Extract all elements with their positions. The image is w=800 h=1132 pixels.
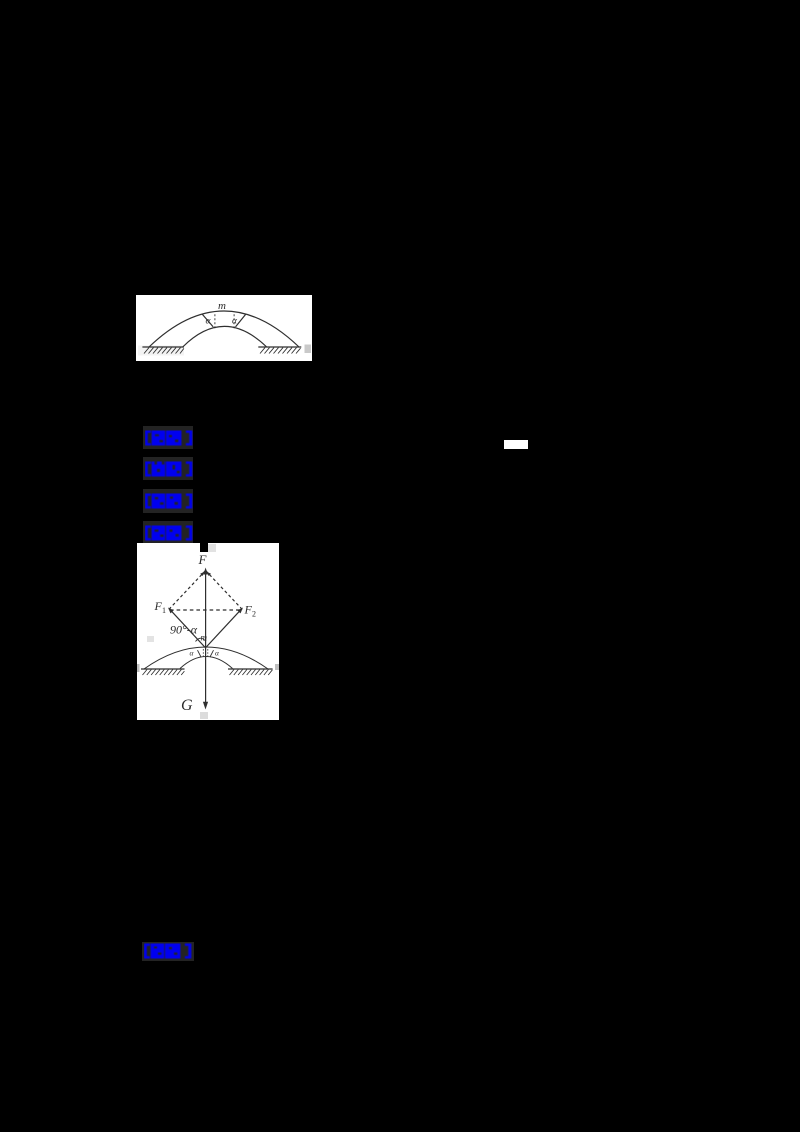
- outer arch: [144, 647, 268, 669]
- ground hatch left: [143, 670, 185, 676]
- inner arch: [180, 657, 233, 669]
- ground line left: [141, 668, 185, 670]
- svg-text:G: G: [181, 697, 193, 714]
- ground line left: [142, 346, 184, 348]
- blue tag 1 (answer): [143, 426, 193, 449]
- ground hatch right: [230, 670, 273, 676]
- force arrow to F1: [169, 609, 205, 648]
- arrowhead dashed left at F tip: [200, 572, 204, 576]
- gray square left edge: [137, 664, 140, 672]
- svg-text:α: α: [190, 649, 195, 658]
- resultant F vertical line: [205, 572, 207, 706]
- force arrow to F2: [206, 609, 242, 648]
- dashed parallelogram side left: [169, 571, 206, 610]
- ground line right: [258, 346, 301, 348]
- arrowhead F1: [168, 608, 174, 614]
- arrowhead F2: [237, 608, 243, 614]
- keystone left slant: [202, 314, 213, 327]
- figure 1: arch bridge with keystone m: [136, 295, 312, 361]
- angle arc 90-alpha: [196, 638, 206, 641]
- white dash (highlighted fraction bar on answer line): [504, 440, 528, 449]
- black notch top: [200, 543, 208, 552]
- ground line right: [228, 668, 273, 670]
- blue tag 2 (analysis): [143, 457, 193, 481]
- keystone slant left: [198, 650, 202, 657]
- ground hatch left: [144, 348, 184, 354]
- gray smudge left mid: [147, 636, 154, 642]
- gray square bottom: [200, 712, 208, 719]
- svg-text:1: 1: [162, 606, 166, 615]
- blue tag 3 (detailed solution): [143, 489, 193, 513]
- figure 2: force diagram on arch: [137, 543, 279, 720]
- svg-text:90°-α: 90°-α: [170, 623, 198, 637]
- gray square beside notch: [208, 544, 216, 552]
- svg-text:2: 2: [252, 610, 256, 619]
- svg-text:m: m: [218, 300, 226, 312]
- keystone dashes: [203, 649, 208, 658]
- dashed horizontal F1-F2: [170, 609, 241, 611]
- keystone dashed vertical left: [214, 314, 216, 328]
- keystone dashed vertical right: [233, 314, 235, 328]
- gray square right edge: [275, 664, 279, 670]
- arrowhead G down: [203, 702, 208, 710]
- svg-text:α: α: [206, 317, 212, 327]
- ground hatch right: [260, 348, 301, 354]
- gray artifact right edge: [305, 345, 312, 354]
- keystone right slant: [236, 314, 246, 327]
- arrowhead F up: [203, 568, 208, 575]
- arrowhead dashed right at F tip: [207, 572, 211, 576]
- svg-text:F: F: [198, 552, 208, 567]
- inner arc: [183, 326, 267, 347]
- dashed parallelogram side right: [206, 571, 243, 610]
- svg-text:m: m: [201, 633, 208, 643]
- svg-text:α: α: [215, 649, 220, 658]
- faint shading left ground: [138, 346, 184, 356]
- outer arc: [149, 311, 299, 347]
- blue tag 5 (key point): [142, 942, 194, 961]
- keystone slant right: [210, 650, 214, 657]
- blue tag 4 (explanation): [143, 521, 193, 544]
